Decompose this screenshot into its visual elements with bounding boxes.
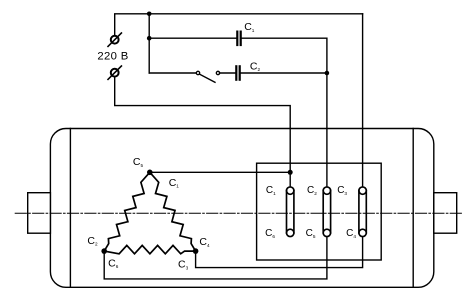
svg-text:C4: C4 — [346, 228, 356, 239]
junction node at top bus — [147, 12, 152, 17]
svg-text:C2: C2 — [307, 185, 317, 196]
center axis dash-dot line — [15, 212, 463, 214]
wire to C1 capacitor — [149, 37, 236, 39]
terminal box — [257, 163, 382, 260]
junction node capacitors — [325, 71, 330, 76]
wire drop to terminal C2 of box — [326, 73, 328, 187]
junction node C1 branch — [147, 36, 152, 41]
svg-text:C3: C3 — [337, 185, 347, 196]
wire to switch — [149, 72, 196, 74]
terminal 220V top — [108, 33, 121, 46]
terminal 220V bottom — [108, 66, 121, 79]
terminal link C2-C5 — [323, 187, 330, 237]
svg-text:C4: C4 — [199, 236, 210, 248]
wire C2 to junction — [241, 72, 327, 74]
wire vertical branch 149 — [148, 14, 150, 73]
wire C1 to vertical drop — [242, 38, 327, 73]
winding phase right (C1-C4) — [150, 172, 196, 251]
wire winding top vertex to box — [150, 171, 290, 173]
svg-text:C5: C5 — [306, 228, 316, 239]
svg-text:C3: C3 — [178, 259, 189, 271]
node winding bottom-left vertex — [101, 248, 107, 254]
terminal link C1-C6 — [287, 187, 294, 237]
svg-text:C2: C2 — [250, 60, 261, 72]
svg-text:C2: C2 — [87, 235, 98, 247]
terminal link C3-C4 — [359, 187, 366, 237]
svg-text:C5: C5 — [133, 156, 144, 168]
junction node winding to supply — [288, 170, 293, 175]
svg-text:C1: C1 — [244, 21, 255, 33]
wire top bus to right corner — [149, 13, 362, 15]
svg-text:220 В: 220 В — [97, 51, 128, 63]
svg-text:C1: C1 — [266, 185, 276, 196]
wire bottom terminal to box terminal C1 — [115, 77, 291, 187]
wire winding BR vertex to box terminal C4 — [196, 236, 363, 267]
svg-text:C6: C6 — [108, 257, 119, 269]
winding phase bottom (C6-C3) — [104, 245, 195, 253]
wire top terminal to top node — [115, 14, 150, 35]
svg-text:C1: C1 — [169, 177, 180, 189]
end shield right — [412, 129, 414, 288]
node winding bottom-right vertex — [193, 248, 199, 254]
wire winding BL vertex to box terminal C5 — [104, 236, 327, 279]
wire right drop to terminal C3 of box — [362, 14, 364, 187]
capacitor C2 — [235, 65, 241, 81]
winding phase left (C5-C2) — [104, 172, 150, 251]
end shield left — [69, 129, 71, 288]
wire switch to C2 capacitor — [219, 72, 235, 74]
svg-text:C6: C6 — [265, 228, 275, 239]
shaft right — [434, 193, 457, 234]
shaft left — [28, 193, 51, 234]
motor housing — [50, 129, 433, 288]
node winding top vertex — [147, 170, 153, 176]
switch S — [196, 71, 219, 82]
capacitor C1 — [236, 31, 242, 47]
